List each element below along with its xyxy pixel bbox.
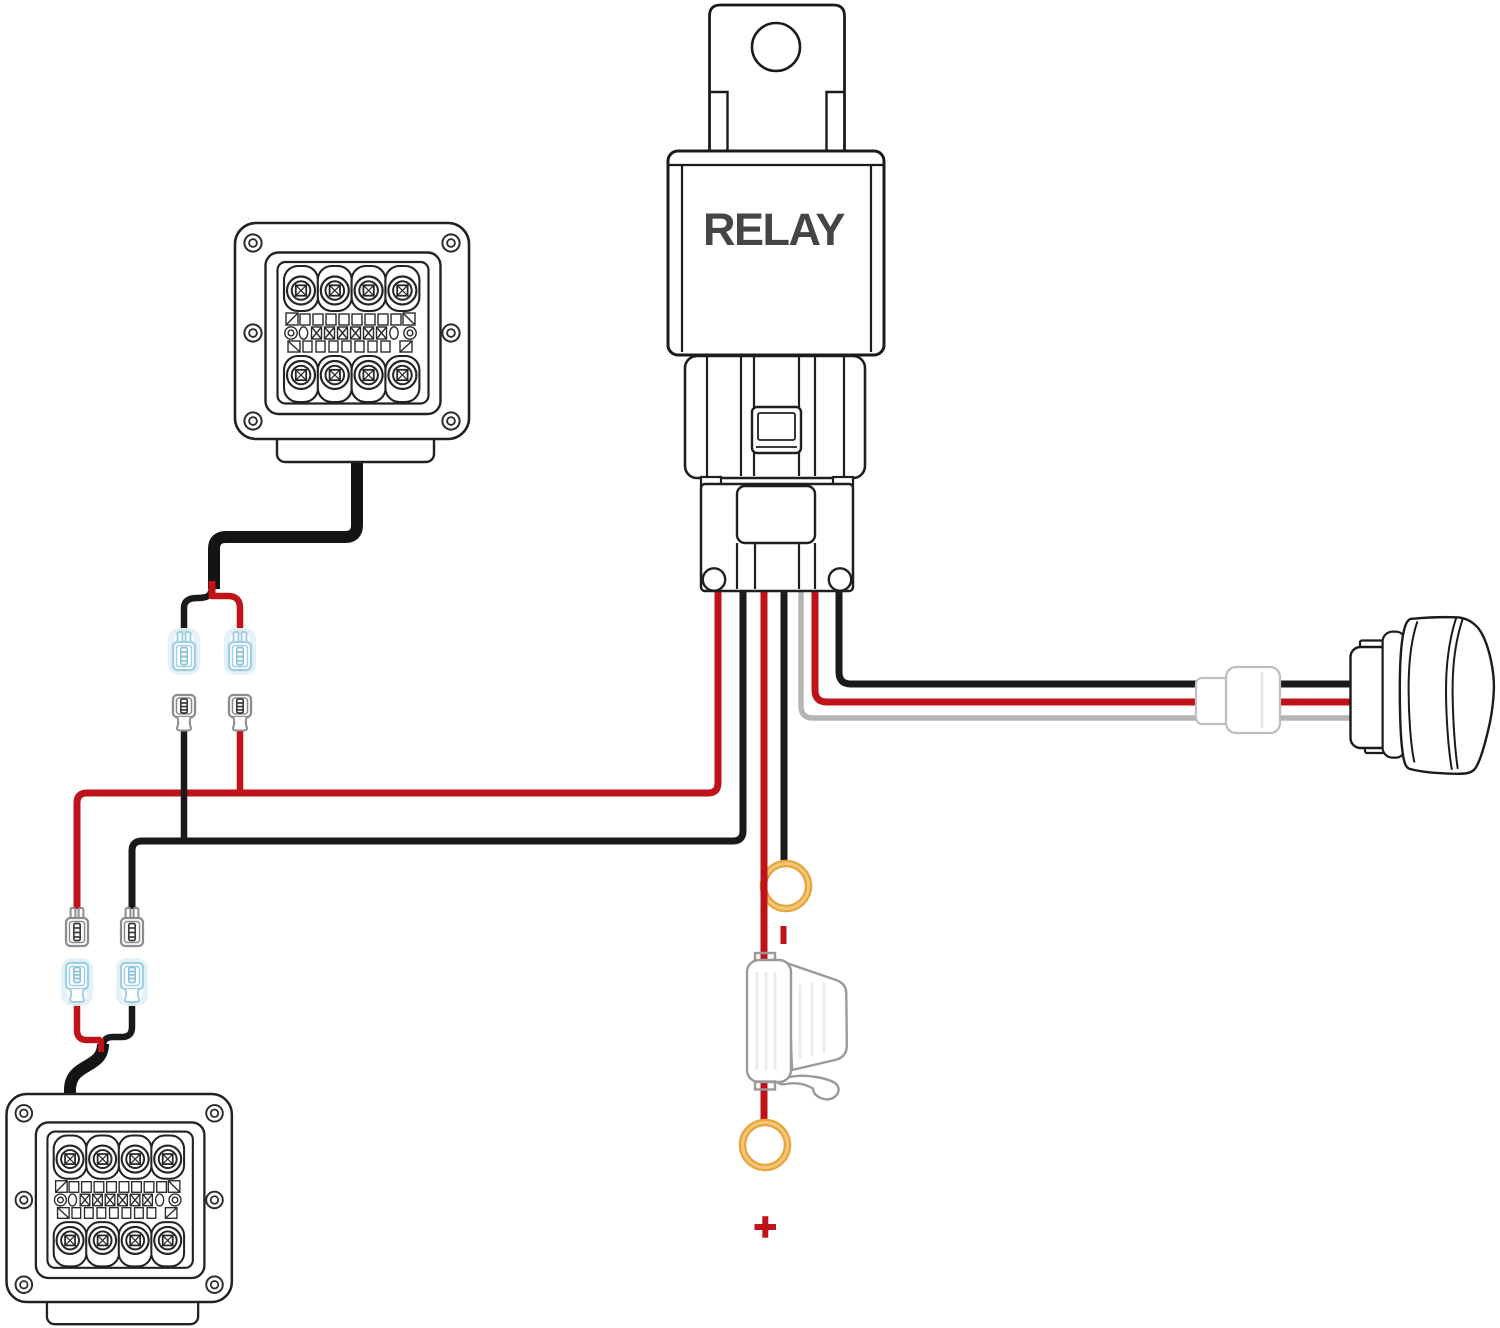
svg-text:RELAY: RELAY bbox=[703, 204, 845, 255]
